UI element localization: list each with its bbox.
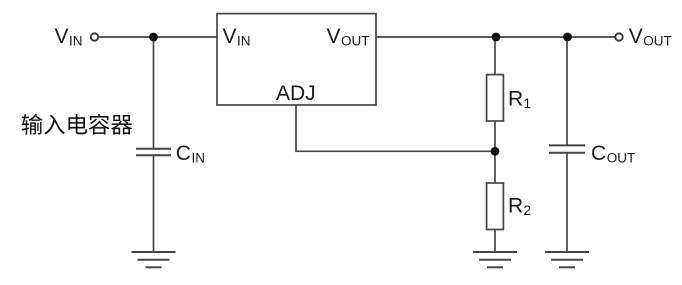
svg-text:V: V	[55, 25, 69, 48]
svg-text:IN: IN	[192, 150, 206, 165]
svg-text:R: R	[508, 87, 523, 110]
svg-text:R: R	[508, 195, 523, 218]
svg-text:IN: IN	[237, 34, 251, 49]
svg-text:V: V	[629, 25, 643, 48]
svg-text:IN: IN	[69, 34, 83, 49]
svg-text:V: V	[327, 25, 341, 48]
svg-text:OUT: OUT	[607, 150, 636, 165]
svg-text:1: 1	[524, 96, 532, 111]
svg-text:2: 2	[524, 203, 532, 218]
svg-text:V: V	[223, 25, 237, 48]
svg-text:C: C	[176, 142, 191, 165]
svg-text:ADJ: ADJ	[276, 82, 316, 105]
svg-text:OUT: OUT	[341, 34, 370, 49]
svg-text:C: C	[591, 142, 606, 165]
svg-text:OUT: OUT	[643, 34, 672, 49]
